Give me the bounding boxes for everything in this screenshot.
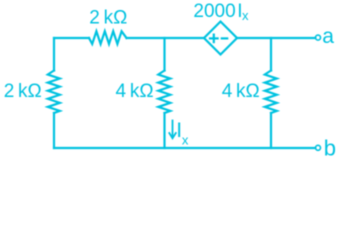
wire middle vertical top segment	[163, 38, 165, 71]
wire right vertical bottom segment	[270, 113, 272, 148]
wire top middle segment (R1 to source)	[127, 37, 205, 39]
wire left vertical bottom segment	[53, 113, 55, 148]
wire source to terminal a	[237, 37, 315, 39]
label source value 2000 Ix	[193, 1, 249, 23]
label current Ix	[176, 119, 189, 148]
wire middle vertical bottom segment	[163, 113, 165, 148]
svg-text:b: b	[324, 136, 336, 161]
svg-text:x: x	[242, 8, 249, 23]
wire right vertical top segment	[270, 38, 272, 71]
resistor R1 2kΩ (top horizontal)	[89, 31, 127, 44]
minus sign inside source	[222, 37, 227, 39]
svg-text:a: a	[322, 25, 334, 48]
dependent source U1 (diamond 2000 Ix)	[204, 22, 237, 55]
svg-text:4 kΩ: 4 kΩ	[116, 81, 154, 102]
wire top-left horizontal segment	[54, 37, 89, 39]
wire left vertical top segment	[53, 38, 55, 71]
svg-text:2 kΩ: 2 kΩ	[4, 81, 42, 102]
wire bottom horizontal	[54, 147, 315, 149]
terminal a circle	[316, 35, 321, 40]
current arrow Ix (downward)	[169, 121, 176, 139]
svg-text:4 kΩ: 4 kΩ	[222, 81, 260, 102]
terminal b circle	[316, 145, 321, 150]
svg-text:2000: 2000	[193, 1, 235, 22]
resistor R4 4kΩ (right vertical)	[265, 71, 277, 114]
plus sign inside source	[210, 35, 218, 43]
svg-text:x: x	[182, 133, 189, 148]
svg-text:2 kΩ: 2 kΩ	[89, 8, 127, 29]
resistor R3 4kΩ (middle vertical)	[158, 71, 170, 114]
resistor R2 2kΩ (left vertical)	[48, 71, 60, 114]
